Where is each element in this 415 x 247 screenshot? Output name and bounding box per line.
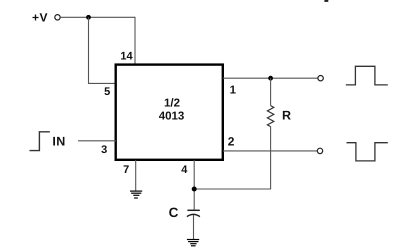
svg-text:R: R xyxy=(282,108,291,122)
wire pin 2 to output terminal xyxy=(223,150,317,152)
svg-text:+V: +V xyxy=(32,11,48,25)
terminal Q output (open circle) xyxy=(318,76,323,81)
wire junction to resistor top xyxy=(270,78,272,105)
junction dot on +V rail xyxy=(86,15,91,20)
wire reset rail horizontal to pin4 node xyxy=(194,188,271,190)
wire +V to pin14 corner xyxy=(60,16,135,18)
wire pin 1 to output terminal xyxy=(223,77,318,79)
svg-text:5: 5 xyxy=(104,86,110,98)
wire into pin 14 xyxy=(134,17,136,65)
resistor R xyxy=(267,106,273,127)
input clock edge symbol xyxy=(30,132,50,151)
terminal +V (open circle) xyxy=(55,15,60,20)
svg-text:4: 4 xyxy=(181,164,188,176)
svg-text:1: 1 xyxy=(230,85,237,97)
svg-text:7: 7 xyxy=(123,164,129,176)
terminal Q-bar output (open circle) xyxy=(317,148,322,153)
wire pin 4 down xyxy=(193,160,195,210)
output waveform positive pulse xyxy=(346,66,388,85)
svg-text:3: 3 xyxy=(101,144,107,156)
wire IN to pin 3 xyxy=(78,140,116,142)
wire into pin 5 xyxy=(88,82,116,84)
junction dot pin4/R/C node xyxy=(192,187,197,192)
capacitor C bottom curved plate xyxy=(187,214,200,216)
svg-text:C: C xyxy=(169,205,179,220)
svg-text:14: 14 xyxy=(120,51,133,63)
svg-text:2: 2 xyxy=(228,135,235,149)
wire capacitor to ground xyxy=(193,215,195,240)
wire junction down to pin5 level xyxy=(88,17,90,83)
op-amp U1 4013 flip-flop body xyxy=(116,65,223,160)
svg-text:IN: IN xyxy=(52,135,65,149)
U1 value label 1/2 4013 xyxy=(159,97,185,122)
cropped text speck at top edge xyxy=(324,0,328,2)
svg-text:4013: 4013 xyxy=(159,111,185,123)
wire pin 7 down to ground xyxy=(135,160,137,191)
junction dot pin1/resistor xyxy=(268,76,273,81)
output waveform negative pulse xyxy=(347,143,388,161)
svg-text:1/2: 1/2 xyxy=(164,97,180,109)
ground under capacitor xyxy=(187,240,199,246)
ground under pin 7 xyxy=(130,191,142,198)
wire resistor bottom down to reset rail (crosses pin2 line) xyxy=(270,127,272,189)
capacitor C top plate xyxy=(187,209,199,211)
